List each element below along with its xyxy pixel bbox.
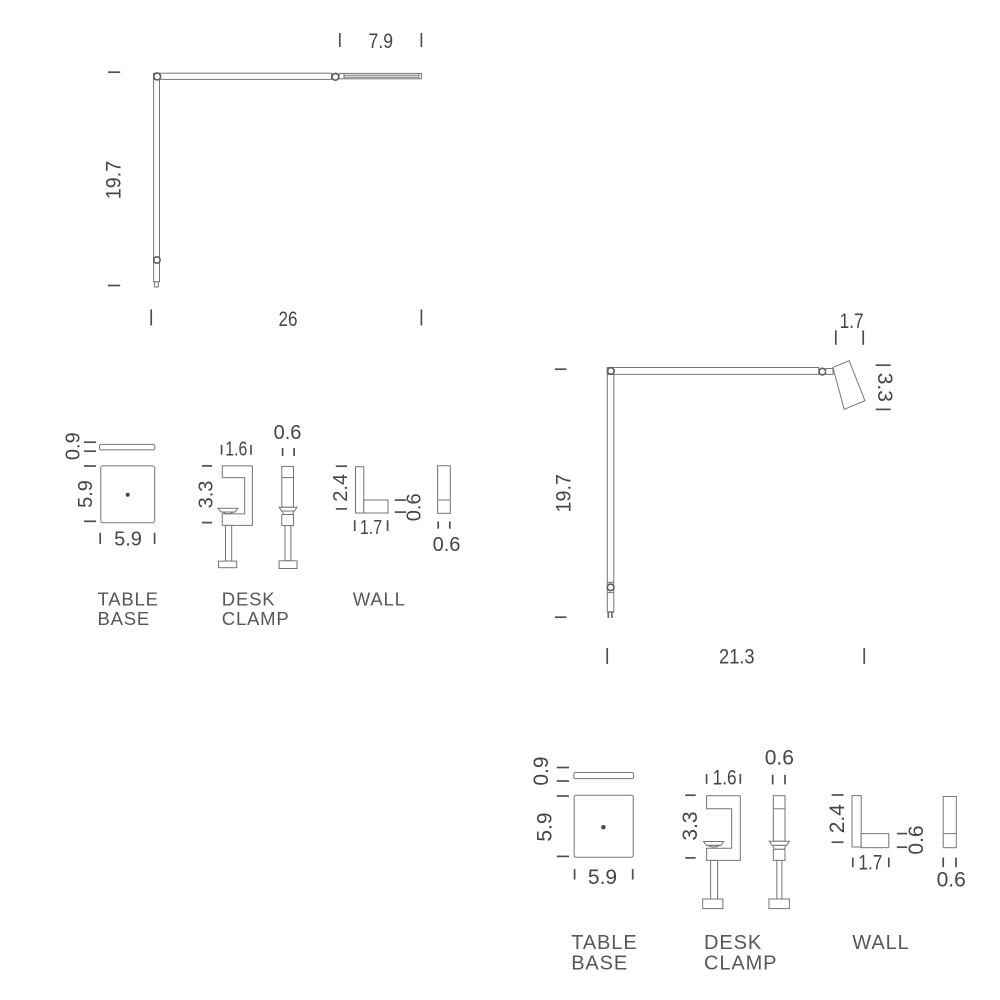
lamp 1 dim 19.7 ticks: [108, 71, 120, 73]
svg-text:WALL: WALL: [852, 932, 909, 954]
set1 dim 5.9 bottom ticks: [99, 533, 101, 544]
lamp 2 top-left joint: [608, 368, 615, 375]
set1 table base plate (side view): [100, 444, 155, 450]
set2 wall bracket front view: [943, 797, 956, 848]
lamp 1 dim 26 ticks: [150, 310, 152, 326]
svg-text:WALL: WALL: [353, 589, 406, 610]
svg-text:CLAMP: CLAMP: [704, 953, 777, 975]
svg-text:CLAMP: CLAMP: [222, 608, 290, 629]
svg-text:0.6: 0.6: [937, 868, 966, 891]
lamp 2 dim 1.7 ticks: [835, 330, 837, 344]
set1 desk clamp front bar: [282, 466, 294, 507]
set1 wall bracket vertical (side view): [356, 467, 364, 513]
set1 desk clamp front foot: [279, 561, 297, 569]
lamp 2 bottom joint: [607, 584, 614, 591]
svg-text:5.9: 5.9: [588, 866, 617, 889]
svg-text:3.3: 3.3: [679, 811, 702, 840]
svg-text:0.9: 0.9: [530, 756, 553, 785]
svg-text:26: 26: [279, 308, 298, 331]
svg-text:DESK: DESK: [704, 932, 762, 954]
set1 wall bracket front view: [438, 466, 451, 514]
svg-text:0.6: 0.6: [905, 825, 928, 854]
set1 dim 0.6 wall side ticks: [395, 499, 406, 501]
set2 table base square (top view): [574, 795, 633, 857]
set2 table base plate (side view): [574, 773, 634, 779]
svg-text:19.7: 19.7: [102, 161, 125, 199]
svg-text:BASE: BASE: [98, 608, 151, 629]
svg-text:0.6: 0.6: [433, 534, 461, 556]
set1 dim 0.6 wall front ticks: [437, 521, 439, 528]
set2 dim 0.6 wall front ticks: [942, 858, 944, 868]
svg-text:TABLE: TABLE: [571, 932, 637, 954]
set2 desk clamp front foot: [769, 899, 790, 909]
set2 desk clamp front flange: [769, 841, 789, 849]
svg-text:DESK: DESK: [222, 589, 276, 610]
set2 desk clamp front block: [773, 849, 785, 860]
svg-text:1.7: 1.7: [858, 852, 882, 875]
lamp 2 dim 19.7 ticks: [555, 368, 566, 370]
set2 dim 0.6 clamp ticks: [772, 775, 774, 785]
set2 dim 1.7 ticks: [852, 858, 854, 868]
lamp 1 bottom joint: [154, 257, 160, 263]
svg-text:BASE: BASE: [571, 953, 628, 975]
set2 desk clamp C-body (side view): [707, 796, 741, 861]
set2 dim 5.9 bottom ticks: [574, 869, 576, 880]
set2 dim 2.4 ticks: [832, 794, 844, 796]
set1 dim 3.3 ticks: [202, 465, 212, 467]
set1 desk clamp screw shaft: [226, 525, 232, 561]
lamp 2 top-right joint: [819, 368, 826, 375]
svg-text:19.7: 19.7: [553, 474, 576, 512]
svg-text:5.9: 5.9: [114, 529, 142, 551]
set2 dim 1.6 ticks: [706, 774, 708, 784]
lamp 2 vertical arm: [607, 368, 614, 612]
set1 table base center dot: [126, 493, 130, 497]
set1 dim 0.6 clamp ticks: [282, 448, 284, 456]
set2 dim 5.9 left ticks: [557, 795, 569, 797]
set1 desk clamp foot: [219, 561, 237, 568]
svg-text:2.4: 2.4: [826, 804, 849, 834]
svg-text:0.6: 0.6: [274, 422, 302, 444]
svg-text:3.3: 3.3: [873, 373, 896, 402]
set1 desk clamp C-body (side view): [222, 466, 252, 526]
svg-text:1.7: 1.7: [360, 517, 382, 539]
set1 dim 2.4 ticks: [336, 465, 347, 467]
set1 desk clamp front shaft: [285, 526, 291, 561]
svg-text:1.7: 1.7: [840, 310, 864, 333]
lamp 1 vertical arm: [154, 74, 160, 282]
set2 dim 3.3 ticks: [685, 794, 696, 796]
svg-text:5.9: 5.9: [534, 812, 557, 841]
svg-text:5.9: 5.9: [75, 480, 97, 508]
set2 table base center dot: [601, 825, 605, 829]
lamp 1 horizontal arm: [154, 73, 332, 79]
set1 dim 0.9 ticks: [84, 441, 96, 443]
lamp 1 dim 7.9 ticks: [339, 33, 341, 47]
lamp 2 bottom nub: [607, 611, 614, 613]
set1 dim 1.7 ticks: [354, 520, 356, 531]
svg-text:1.6: 1.6: [713, 766, 737, 789]
set2 dim 0.6 wall side ticks: [897, 833, 907, 835]
lamp 2 dim 21.3 ticks: [606, 648, 608, 664]
lamp 1 top-left joint: [154, 73, 161, 80]
lamp 2 horizontal arm: [607, 368, 818, 375]
set2 desk clamp pad disc: [704, 842, 724, 848]
set2 wall bracket horizontal: [861, 834, 889, 848]
lamp 1 head bar: [339, 73, 421, 78]
lamp 1 bottom nub: [155, 282, 159, 287]
set1 dim 1.6 ticks: [221, 445, 223, 455]
set1 wall bracket horizontal: [364, 500, 388, 513]
lamp 2 head: [833, 361, 865, 410]
set2 desk clamp front bar: [773, 796, 785, 842]
lamp 1 top-right joint: [332, 73, 339, 80]
set2 wall bracket vertical (side view): [852, 796, 861, 847]
svg-text:0.6: 0.6: [765, 746, 794, 769]
set1 table base square (top view): [101, 466, 155, 523]
lamp 2 dim 3.3 ticks: [876, 364, 891, 366]
svg-text:TABLE: TABLE: [98, 589, 159, 610]
svg-text:0.6: 0.6: [404, 493, 426, 521]
svg-text:1.6: 1.6: [225, 438, 247, 460]
set2 desk clamp screw shaft: [711, 860, 718, 899]
set2 desk clamp front shaft: [777, 860, 782, 899]
set1 desk clamp pad disc: [218, 508, 238, 513]
svg-text:21.3: 21.3: [719, 646, 755, 669]
set2 dim 0.9 ticks: [557, 767, 569, 769]
set1 desk clamp front flange: [279, 507, 297, 514]
lamp 2 head link: [826, 369, 833, 375]
svg-text:3.3: 3.3: [196, 481, 218, 509]
svg-text:7.9: 7.9: [369, 30, 394, 53]
svg-text:2.4: 2.4: [330, 474, 352, 502]
set1 dim 5.9 left ticks: [84, 465, 96, 467]
set1 desk clamp front block: [282, 515, 294, 526]
set2 desk clamp foot: [703, 899, 723, 909]
svg-text:0.9: 0.9: [62, 432, 84, 460]
